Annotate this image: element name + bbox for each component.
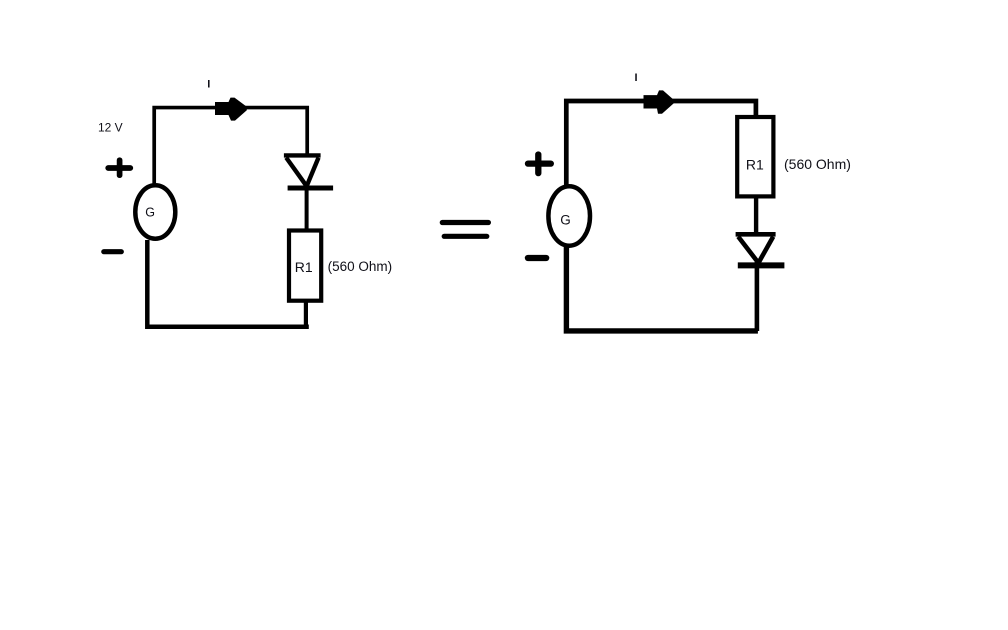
current arrow I (left circuit) [215, 98, 247, 121]
svg-text:(560 Ohm): (560 Ohm) [328, 259, 393, 274]
plus symbol (right source) [528, 155, 551, 174]
diode cathode bar (right circuit) [738, 262, 785, 268]
wire: left circuit top/left loop [154, 108, 307, 184]
wire: diode to resistor (left circuit) [305, 186, 309, 229]
svg-text:R1: R1 [746, 157, 764, 173]
equals sign [442, 223, 488, 237]
wire: diode to bottom (right circuit) [755, 262, 760, 331]
svg-text:12 V: 12 V [98, 121, 123, 135]
minus symbol (left source) [104, 249, 122, 254]
diode D (right circuit) [736, 234, 776, 262]
generator G (right source ellipse) [548, 186, 590, 245]
svg-text:(560 Ohm): (560 Ohm) [784, 156, 851, 172]
wire: right circuit top/left loop [566, 101, 756, 185]
current arrow I (right circuit) [644, 90, 674, 113]
svg-text:I: I [207, 79, 210, 91]
diode D (left circuit) [284, 155, 321, 186]
resistor R1 (left circuit) [289, 231, 321, 301]
resistor R1 (right circuit) [737, 117, 773, 196]
wire: resistor to diode (right circuit) [754, 196, 758, 233]
diode cathode bar (left circuit) [288, 186, 334, 191]
svg-text:R1: R1 [295, 259, 313, 275]
svg-text:G: G [145, 205, 155, 219]
svg-text:I: I [635, 72, 638, 84]
wire: left circuit bottom and lower-left [147, 240, 308, 327]
plus symbol (left source) [108, 160, 130, 175]
minus symbol (right source) [528, 255, 546, 261]
wire: resistor to bottom (left circuit) [304, 302, 308, 327]
svg-text:G: G [560, 213, 571, 228]
generator G (left source ellipse) [135, 185, 175, 238]
wire: right circuit bottom and lower-left [566, 246, 758, 331]
